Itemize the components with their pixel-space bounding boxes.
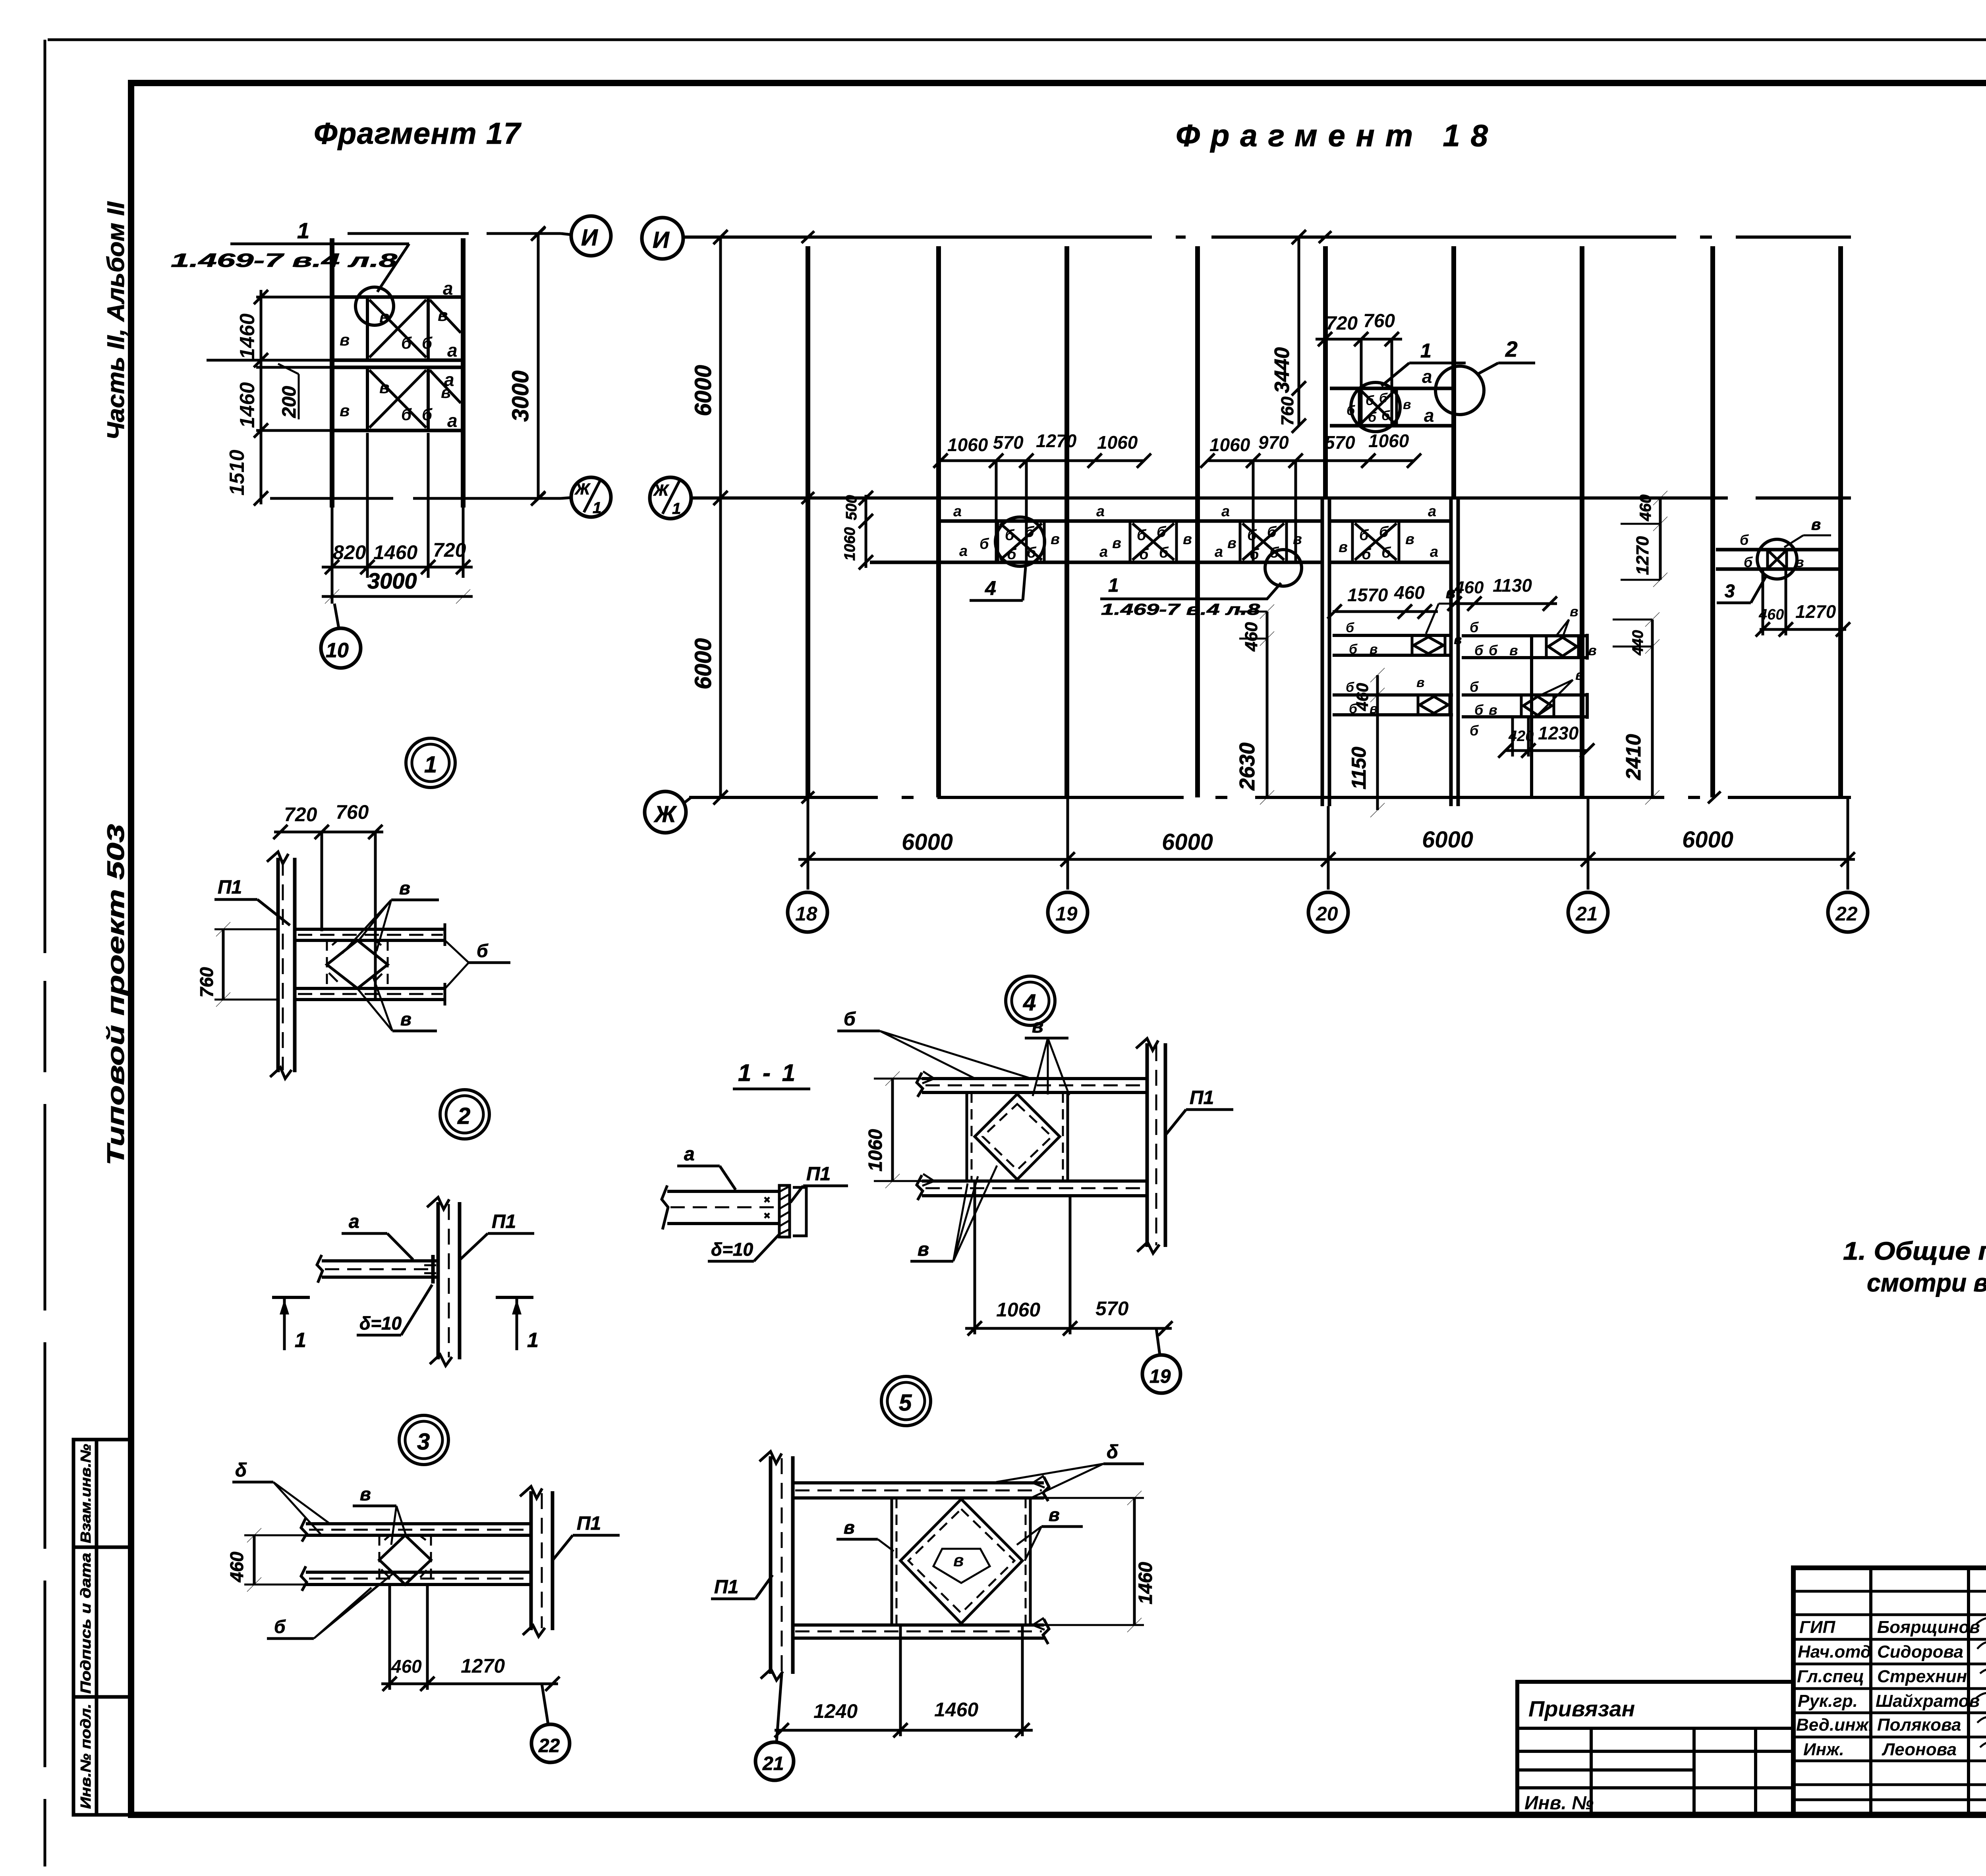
svg-text:21: 21 <box>762 1753 784 1774</box>
frag17 dim 200 <box>278 364 300 419</box>
frag18 grid circle Ж/1 <box>650 477 691 519</box>
svg-text:б: б <box>1157 524 1167 540</box>
node4 gusset diamond <box>975 1094 1060 1179</box>
frag17 ref label 1.469-7 <box>171 218 409 292</box>
svg-text:720: 720 <box>1326 313 1358 334</box>
frag18 top detail dim labels <box>1326 311 1395 334</box>
svg-text:4: 4 <box>985 577 996 599</box>
svg-text:720: 720 <box>433 539 466 561</box>
svg-text:в: в <box>1795 554 1804 570</box>
svg-text:а: а <box>684 1144 695 1165</box>
margin stamp text Подпись и дата <box>77 1553 94 1694</box>
section 1-1 beam <box>662 1185 779 1229</box>
svg-text:б: б <box>1470 619 1479 635</box>
title block fam names <box>1876 1617 1980 1759</box>
svg-text:П1: П1 <box>218 877 242 898</box>
frag18 expansion joint axis21 module <box>1451 498 1458 806</box>
svg-text:1570: 1570 <box>1347 585 1388 605</box>
frag18 node1 circle on band <box>1265 550 1302 586</box>
svg-text:а: а <box>1430 544 1438 560</box>
svg-text:Боярщинов: Боярщинов <box>1877 1617 1980 1637</box>
title block signatures <box>1976 1614 1986 1754</box>
svg-text:в: в <box>1416 675 1425 690</box>
svg-text:Сидорова: Сидорова <box>1877 1642 1963 1662</box>
svg-text:570: 570 <box>1095 1297 1129 1320</box>
svg-text:1230: 1230 <box>1538 723 1579 743</box>
svg-text:в: в <box>340 401 350 420</box>
svg-text:1060: 1060 <box>1368 430 1409 451</box>
svg-text:в: в <box>1575 667 1584 683</box>
node3 gusset diamond <box>379 1535 431 1585</box>
frag18 dim 420 1230 <box>1498 717 1594 758</box>
svg-text:760: 760 <box>336 801 369 823</box>
svg-text:б: б <box>1489 642 1498 658</box>
frag18 axis Ж/1 <box>691 492 1851 504</box>
svg-text:6000: 6000 <box>1162 829 1213 855</box>
frag18 dim 460 1130 module21-22 <box>1447 596 1557 611</box>
svg-text:а: а <box>953 503 962 520</box>
node5 label P1 <box>711 1575 773 1599</box>
outer sheet boundary left <box>44 40 46 1866</box>
frag17 column left <box>330 238 334 508</box>
svg-text:б: б <box>1349 642 1358 657</box>
svg-text:19: 19 <box>1149 1366 1171 1387</box>
frag18 left dim 6000x2 <box>690 230 728 805</box>
frag17 grid circle И <box>561 216 611 256</box>
svg-text:δ=10: δ=10 <box>359 1313 402 1334</box>
svg-text:в: в <box>918 1239 929 1260</box>
inv no text <box>1524 1793 1594 1814</box>
svg-text:а: а <box>447 410 458 431</box>
title block name rows <box>1793 1591 1986 1800</box>
svg-text:б: б <box>1362 546 1372 563</box>
svg-text:2: 2 <box>1505 337 1518 361</box>
svg-text:3000: 3000 <box>367 568 417 593</box>
svg-text:в: в <box>844 1517 855 1538</box>
margin stamp table <box>73 1440 131 1815</box>
frag17 axis Ж/1 <box>270 492 561 504</box>
svg-text:3440: 3440 <box>1271 347 1294 393</box>
svg-text:а: а <box>1424 405 1434 426</box>
frag18 dim chain module18-19 <box>933 454 1151 564</box>
title Фрагмент 17 <box>314 117 524 151</box>
frag18 braced cell 4 <box>1352 521 1399 562</box>
svg-text:а: а <box>1221 503 1230 520</box>
frag18 bottom dim labels <box>902 827 1733 855</box>
svg-text:1.469-7 в.4 л.8: 1.469-7 в.4 л.8 <box>1101 601 1260 618</box>
frag18 axis Ж <box>689 791 1851 803</box>
node5 label δ <box>996 1442 1144 1497</box>
frag18 dim labels module19-20 <box>1209 430 1409 455</box>
svg-text:б: б <box>1027 544 1037 561</box>
frag18 top detail letters <box>1347 391 1411 425</box>
frag18 top detail letters a <box>1422 366 1434 426</box>
node1 label в top <box>342 878 439 953</box>
svg-text:22: 22 <box>538 1735 560 1756</box>
svg-text:820: 820 <box>333 541 366 564</box>
svg-text:б: б <box>1381 544 1391 561</box>
node1 column P1 <box>267 852 295 1079</box>
frag18 vertical 3856 <box>1530 636 1533 797</box>
svg-text:б: б <box>1474 642 1484 658</box>
svg-text:в: в <box>1049 1504 1060 1525</box>
frag17 panel chords <box>332 297 463 430</box>
svg-text:1060: 1060 <box>1209 434 1250 455</box>
svg-text:Вед.инж.: Вед.инж. <box>1796 1715 1873 1735</box>
node1 beam1 <box>295 923 445 946</box>
svg-text:б: б <box>401 334 412 352</box>
svg-text:460: 460 <box>1454 578 1484 597</box>
svg-text:22: 22 <box>1835 903 1858 925</box>
node4 ref circle 4 <box>1006 976 1055 1025</box>
svg-text:18: 18 <box>795 903 817 925</box>
svg-text:δ: δ <box>235 1460 247 1481</box>
frag17 bottom ext lines <box>332 433 463 604</box>
frag18 top detail braced cell <box>1359 388 1397 426</box>
svg-text:460: 460 <box>391 1656 422 1677</box>
svg-text:а: а <box>447 340 458 361</box>
svg-text:720: 720 <box>284 803 317 826</box>
frag18 top detail vert dim 3440 760 <box>1271 230 1306 433</box>
frag18 bottom ext lines <box>808 797 1848 890</box>
svg-text:а: а <box>1428 503 1436 520</box>
note line 1 <box>1843 1237 1986 1265</box>
svg-text:1460: 1460 <box>1135 1562 1156 1604</box>
svg-text:б: б <box>1346 620 1354 635</box>
svg-text:в: в <box>1446 584 1455 602</box>
privyazan table outline <box>1517 1682 1793 1815</box>
frag18 top detail beams <box>1330 388 1452 426</box>
frag17 left dim chain <box>207 290 334 506</box>
node5 bottom dim labels <box>813 1698 978 1722</box>
margin stamp text Взам.инв.№ <box>77 1444 94 1543</box>
svg-text:Гл.спец: Гл.спец <box>1797 1667 1864 1686</box>
svg-text:б: б <box>1366 393 1374 408</box>
svg-text:1060: 1060 <box>842 527 858 561</box>
frag18 bottom dim line 6000x4 <box>798 852 1855 867</box>
frag18 band C module21-22 <box>1462 634 1587 660</box>
frag18 axis И <box>683 231 1851 243</box>
svg-text:1. Общие примечания см. на ли: 1. Общие примечания см. на листе 20, там… <box>1843 1237 1986 1265</box>
svg-text:Фрагмент 17: Фрагмент 17 <box>314 117 524 151</box>
svg-text:б: б <box>1359 527 1369 544</box>
node3 column P1 <box>520 1486 553 1637</box>
svg-text:в: в <box>360 1484 371 1504</box>
privyazan table rows <box>1517 1728 1793 1788</box>
node3 ref circle 3 <box>399 1415 448 1465</box>
svg-text:ГИП: ГИП <box>1799 1617 1836 1637</box>
svg-text:П1: П1 <box>492 1211 516 1232</box>
svg-text:460: 460 <box>1242 622 1261 652</box>
svg-text:И: И <box>653 227 670 253</box>
svg-text:1130: 1130 <box>1493 575 1532 596</box>
svg-text:Взам.инв.№: Взам.инв.№ <box>77 1444 94 1543</box>
node2 label d=10 <box>357 1285 432 1335</box>
svg-text:б: б <box>274 1616 286 1637</box>
svg-text:2: 2 <box>457 1103 470 1129</box>
node5 label в right <box>1017 1504 1083 1561</box>
svg-text:760: 760 <box>1278 396 1297 426</box>
section 1-1 label a <box>677 1144 736 1190</box>
frag18 mid dim 1570 460 <box>1327 604 1438 619</box>
svg-text:570: 570 <box>1325 432 1355 453</box>
svg-text:460: 460 <box>1758 606 1784 623</box>
section 1-1 label P1 <box>790 1164 848 1202</box>
svg-text:б: б <box>1470 722 1479 739</box>
frag18 vert dim 460 2630 <box>1235 604 1274 805</box>
svg-text:в: в <box>1183 531 1192 548</box>
frag18 braced cell 3 <box>1240 521 1287 562</box>
node3 bottom dim 460 1270 <box>381 1585 560 1691</box>
svg-text:1460: 1460 <box>236 313 259 359</box>
svg-text:460: 460 <box>1394 582 1425 603</box>
frag18 band letters <box>953 503 1438 563</box>
svg-text:1510: 1510 <box>226 450 249 496</box>
frag18 grid circles 18-22 <box>788 892 1868 932</box>
node3 circle 22 <box>531 1684 570 1762</box>
svg-text:в: в <box>1403 397 1411 412</box>
frag18 node4 label <box>970 567 1026 600</box>
node1 gusset diamond <box>327 940 388 988</box>
svg-text:б: б <box>1007 546 1017 563</box>
node4 label б <box>837 1009 1029 1079</box>
frag18 left band dim <box>842 491 873 569</box>
frag18 columns <box>808 246 1841 797</box>
svg-text:1: 1 <box>424 752 437 778</box>
svg-text:1150: 1150 <box>1348 747 1370 789</box>
frag17 bottom dim chain <box>322 560 473 574</box>
svg-text:1270: 1270 <box>1036 430 1077 451</box>
svg-text:1270: 1270 <box>1633 536 1652 575</box>
svg-text:1460: 1460 <box>236 382 259 428</box>
svg-text:б: б <box>1381 408 1390 423</box>
svg-text:6000: 6000 <box>902 829 953 855</box>
frag17 left dim labels <box>226 313 259 496</box>
section 1-1 end plate <box>779 1185 806 1237</box>
svg-text:1060: 1060 <box>1097 432 1138 453</box>
node5 right dim 1460 <box>1044 1491 1156 1632</box>
svg-text:в: в <box>1811 516 1821 533</box>
svg-text:1: 1 <box>1108 575 1119 596</box>
svg-text:в: в <box>340 330 350 349</box>
privyazan text <box>1528 1696 1635 1721</box>
node4 left dim 1060 <box>865 1071 922 1188</box>
section 1-1 label d=10 <box>708 1234 779 1261</box>
node3 label δ <box>232 1460 329 1534</box>
node1 beam2 <box>295 983 445 1006</box>
svg-text:б: б <box>844 1009 856 1030</box>
svg-text:5: 5 <box>899 1390 912 1416</box>
frag18 node3 label в <box>1784 516 1831 547</box>
svg-text:460: 460 <box>226 1552 247 1583</box>
frag18 node4 circle <box>995 517 1045 566</box>
svg-text:в: в <box>1489 702 1497 718</box>
node4 posts <box>967 1092 1068 1181</box>
svg-text:б: б <box>1368 410 1377 425</box>
svg-text:760: 760 <box>196 967 217 998</box>
svg-text:440: 440 <box>1630 630 1646 656</box>
frag18 vert dim 1150 460 <box>1348 668 1385 817</box>
svg-text:б: б <box>979 536 989 552</box>
margin stamp text Инв.№ подл. <box>77 1704 94 1809</box>
svg-text:1060: 1060 <box>996 1299 1040 1321</box>
svg-text:в: в <box>1293 531 1302 548</box>
svg-text:1: 1 <box>593 499 601 517</box>
node2 column P1 <box>427 1197 460 1366</box>
svg-text:2630: 2630 <box>1235 743 1259 791</box>
svg-text:И: И <box>581 225 598 251</box>
frag17 node ref circle 1 <box>406 738 455 787</box>
frag17 axis И <box>348 228 561 239</box>
svg-text:19: 19 <box>1055 903 1078 925</box>
svg-text:21: 21 <box>1575 903 1598 925</box>
node3 label P1 <box>553 1513 620 1560</box>
frag18 top detail dim 720 760 <box>1316 332 1402 426</box>
node5 gusset diamond <box>900 1499 1022 1623</box>
svg-text:Полякова: Полякова <box>1877 1715 1961 1735</box>
svg-text:δ: δ <box>1107 1442 1119 1463</box>
frag18 mid label в <box>1426 584 1462 634</box>
svg-text:1: 1 <box>527 1329 539 1352</box>
svg-text:460: 460 <box>1353 683 1372 711</box>
svg-text:1270: 1270 <box>461 1655 505 1677</box>
frag18 node3 circle <box>1757 539 1797 579</box>
svg-text:2410: 2410 <box>1622 734 1645 780</box>
title block name columns <box>1871 1568 1986 1815</box>
frag18 node1 label top <box>1381 340 1466 386</box>
svg-text:П1: П1 <box>577 1513 601 1534</box>
node5 beam1 <box>793 1476 1049 1501</box>
privyazan table cols <box>1591 1728 1756 1815</box>
frag17 panel verticals <box>367 297 428 430</box>
svg-text:20: 20 <box>1316 903 1338 925</box>
svg-text:в: в <box>1112 535 1121 552</box>
node1 label б right <box>444 940 510 990</box>
svg-text:1: 1 <box>672 500 681 517</box>
svg-text:10: 10 <box>326 639 349 662</box>
node1 dim labels 720 760 <box>284 801 369 826</box>
node2 section mark 1 right <box>496 1297 539 1352</box>
svg-text:4: 4 <box>1023 990 1036 1015</box>
node2 label a <box>342 1211 413 1260</box>
frag18 braced cell 2 <box>1130 521 1177 562</box>
section 1-1 bolts <box>765 1197 769 1218</box>
margin text Часть II Альбом II <box>102 201 129 440</box>
svg-text:Подпись и дата: Подпись и дата <box>77 1553 94 1694</box>
svg-text:в: в <box>1032 1016 1043 1037</box>
svg-text:в: в <box>438 306 448 324</box>
svg-text:б: б <box>1005 527 1015 544</box>
node5 column P1 <box>759 1451 793 1680</box>
frag17 bottom dim labels <box>333 539 466 564</box>
svg-text:1460: 1460 <box>934 1698 978 1721</box>
svg-text:1060: 1060 <box>865 1129 886 1172</box>
svg-text:а: а <box>349 1211 359 1232</box>
svg-text:б: б <box>1137 527 1147 544</box>
svg-text:в: в <box>1227 535 1236 552</box>
node4 label P1 <box>1166 1087 1233 1134</box>
svg-text:в: в <box>1051 531 1060 548</box>
frag17 panel diagonals row1 <box>369 300 461 357</box>
svg-text:в: в <box>1405 531 1414 548</box>
frag18 node3 dim 460 1270 <box>1756 569 1850 637</box>
frag18 band B module20-21 <box>1333 695 1453 715</box>
node5 label в left <box>837 1517 894 1551</box>
svg-text:460: 460 <box>1637 494 1654 521</box>
svg-text:1.469-7 в.4 л.8: 1.469-7 в.4 л.8 <box>171 250 398 271</box>
svg-text:П1: П1 <box>714 1577 738 1598</box>
frag18 grid circle И <box>642 218 683 259</box>
svg-text:б: б <box>477 940 489 961</box>
frag18 band A module20-21 <box>1333 635 1452 655</box>
svg-text:в: в <box>1339 539 1348 556</box>
frag18 vert dim 460 1270 module21-22 <box>1621 491 1667 587</box>
frag18 node2 circle top <box>1435 366 1484 415</box>
note line 2 <box>1867 1268 1986 1297</box>
svg-text:Инв.№ подл.: Инв.№ подл. <box>77 1704 94 1809</box>
svg-text:а: а <box>1215 544 1223 560</box>
svg-text:1060: 1060 <box>947 434 988 455</box>
frag18 expansion joint axis20 <box>1322 498 1329 806</box>
node1 dim 720 760 <box>273 825 383 1001</box>
svg-text:б: б <box>1744 554 1753 570</box>
node2 label P1 <box>460 1211 534 1260</box>
svg-text:Леонова: Леонова <box>1882 1740 1957 1759</box>
svg-text:П1: П1 <box>806 1164 831 1185</box>
node3 beam2 <box>301 1566 531 1591</box>
frag18 node2 label top <box>1478 337 1535 374</box>
node1 label P1 <box>214 877 290 925</box>
svg-text:Привязан: Привязан <box>1528 1696 1635 1721</box>
svg-text:570: 570 <box>993 432 1024 453</box>
node4 bottom dim 1060 570 <box>965 1181 1173 1336</box>
frag17 panel diagonals row2 <box>369 370 461 428</box>
svg-text:б: б <box>1379 524 1389 540</box>
svg-text:3000: 3000 <box>508 371 533 422</box>
node4 circle 19 <box>1142 1328 1180 1393</box>
svg-text:б: б <box>1474 702 1484 718</box>
svg-text:1270: 1270 <box>1795 601 1836 622</box>
node5 bottom dim 1240 1460 <box>775 1625 1033 1737</box>
title Фрагмент 18 <box>1176 118 1493 153</box>
svg-text:в: в <box>400 1009 411 1029</box>
frag17 column right <box>461 238 466 508</box>
frag17 grid circle Ж/1 <box>561 477 611 517</box>
node3 beam1 <box>301 1518 531 1542</box>
svg-text:Типовой проект 503: Типовой проект 503 <box>102 824 129 1166</box>
svg-text:б: б <box>1267 524 1277 540</box>
frag18 vert dim 440 2410 <box>1613 612 1660 805</box>
frag18 node1 circle top <box>1351 382 1400 432</box>
frag18 grid circle Ж <box>645 791 691 833</box>
title block role names <box>1796 1617 1873 1759</box>
frag18 braced cell 1 <box>998 521 1044 562</box>
svg-text:Стрехнин: Стрехнин <box>1877 1667 1967 1686</box>
frag18 node3 letters <box>1740 532 1804 570</box>
svg-text:в: в <box>953 1551 964 1570</box>
frag17 panel letters row2 <box>340 369 458 431</box>
svg-text:а: а <box>1096 503 1105 520</box>
frag18 node3 joint <box>1768 550 1787 569</box>
svg-text:а: а <box>1099 544 1108 560</box>
frag17 panel letters row1 <box>340 278 458 361</box>
svg-text:δ=10: δ=10 <box>711 1239 753 1260</box>
svg-text:1460: 1460 <box>373 541 417 564</box>
svg-text:б: б <box>401 405 412 424</box>
node5 label в centre <box>953 1551 964 1570</box>
node5 beam2 <box>793 1618 1049 1644</box>
svg-text:б: б <box>1159 544 1169 561</box>
